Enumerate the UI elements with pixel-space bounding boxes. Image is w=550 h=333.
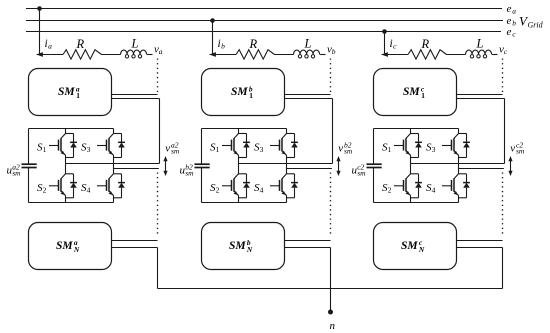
wire H-bridge bottom rail (29, 202, 114, 204)
label SM_N^b (229, 238, 253, 254)
wire (102, 54, 121, 56)
svg-text:3: 3 (260, 145, 264, 154)
resistor R (phase b) (236, 50, 275, 59)
svg-text:e: e (507, 26, 512, 38)
wire SM_1^b lower terminal (285, 99, 333, 164)
svg-text:R: R (421, 37, 430, 51)
svg-text:sm: sm (344, 147, 353, 156)
label e_c (507, 26, 517, 39)
label S_1 (37, 142, 47, 155)
wire dotted (omitted submodules) (157, 173, 159, 237)
svg-text:sm: sm (12, 169, 21, 178)
wire dotted v_b to SM_1 terminal (330, 59, 332, 93)
submodule block SM_N^b (202, 223, 285, 270)
label i_a (45, 38, 53, 51)
wire SM_1^b upper terminal (285, 94, 331, 96)
wire H-bridge bottom rail (202, 202, 287, 204)
submodule block SM_1^b (202, 69, 285, 116)
annotation arrow v_sm^b2 (336, 156, 340, 176)
submodule block SM_1^c (374, 69, 457, 116)
svg-text:SM: SM (229, 240, 246, 252)
svg-text:SM: SM (403, 86, 420, 98)
diode (antiparallel, S2) (246, 174, 248, 183)
svg-text:b: b (512, 18, 516, 27)
transistor S1 (IGBT, phase c) (394, 129, 422, 164)
svg-text:R: R (76, 37, 85, 51)
wire H-bridge left-leg midpoint output (411, 163, 505, 165)
wire H-bridge left-leg midpoint output (66, 163, 160, 165)
node v_b (327, 44, 336, 57)
svg-text:SM: SM (231, 86, 248, 98)
inductor L (phase a) (121, 50, 147, 54)
wire SM_N^c upper terminal (457, 240, 503, 242)
junction node on bus e_b (phase b) (210, 18, 215, 23)
label SM_N^a (56, 238, 80, 254)
svg-text:e: e (507, 3, 512, 15)
svg-text:b: b (221, 41, 225, 50)
svg-text:1: 1 (216, 145, 220, 154)
label S_1 (382, 142, 392, 155)
wire SM_N^c lower terminal (457, 248, 503, 289)
label R (phase c) (421, 37, 430, 51)
bus line e_c (26, 31, 501, 33)
svg-text:2: 2 (43, 185, 47, 194)
svg-text:4: 4 (432, 185, 436, 194)
transistor S1 (IGBT, phase a) (49, 129, 77, 164)
label SM_N^c (401, 238, 425, 254)
diode (antiparallel, S3) (121, 134, 123, 143)
label V_Grid (519, 14, 544, 30)
svg-text:1: 1 (421, 91, 425, 100)
wire SM_N^a upper terminal (112, 240, 158, 242)
label S_1 (210, 142, 220, 155)
bus line e_b (26, 20, 503, 22)
label R (phase a) (76, 37, 85, 51)
svg-text:b: b (332, 47, 336, 56)
transistor S3 (IGBT, phase c) (442, 129, 470, 169)
label S_2 (37, 182, 47, 195)
junction node on bus e_c (phase c) (382, 29, 387, 34)
wire H-bridge right-leg midpoint output (287, 168, 332, 170)
node v_c (499, 44, 508, 57)
svg-text:a: a (48, 41, 52, 50)
capacitor u_sm^c2 (submodule DC cap) (367, 129, 382, 203)
submodule block SM_N^a (29, 223, 112, 270)
svg-text:v: v (165, 143, 170, 155)
resistor R (phase c) (408, 50, 447, 59)
inductor L (phase c) (466, 50, 492, 54)
label S_4 (426, 182, 436, 195)
label i_c (390, 38, 398, 51)
diode (antiparallel, S4) (466, 174, 468, 183)
transistor S1 (IGBT, phase b) (222, 129, 250, 164)
svg-text:R: R (249, 37, 258, 51)
wire H-bridge left-leg midpoint output (239, 163, 333, 165)
diode (antiparallel, S1) (73, 134, 75, 143)
svg-text:2: 2 (388, 185, 392, 194)
svg-text:1: 1 (76, 91, 80, 100)
diode (antiparallel, S4) (121, 174, 123, 183)
transistor S2 (IGBT, phase a) (49, 164, 77, 203)
label u_sm^c2 (352, 162, 367, 177)
label v_sm^c2 (510, 140, 525, 155)
diode (antiparallel, S3) (466, 134, 468, 143)
label S_3 (426, 142, 436, 155)
diode (antiparallel, S2) (418, 174, 420, 183)
svg-text:4: 4 (260, 185, 264, 194)
label e_b (507, 15, 517, 28)
svg-text:L: L (304, 37, 312, 51)
svg-text:SM: SM (401, 240, 418, 252)
svg-text:n: n (330, 320, 336, 332)
inductor L (phase b) (294, 50, 320, 54)
label S_3 (81, 142, 91, 155)
transistor S2 (IGBT, phase b) (222, 164, 250, 203)
svg-text:v: v (510, 143, 515, 155)
wire (275, 54, 294, 56)
svg-text:Grid: Grid (528, 21, 544, 30)
label S_2 (382, 182, 392, 195)
label e_a (507, 3, 517, 16)
svg-text:L: L (476, 37, 484, 51)
diode (antiparallel, S1) (418, 134, 420, 143)
diode (antiparallel, S3) (294, 134, 296, 143)
svg-text:3: 3 (432, 145, 436, 154)
wire SM_1^c lower terminal (457, 99, 505, 164)
wire H-bridge right-leg midpoint output (114, 168, 159, 170)
svg-text:a: a (159, 47, 163, 56)
svg-text:2: 2 (216, 185, 220, 194)
label SM_1^b (231, 84, 253, 100)
wire dotted v_c to SM_1 terminal (502, 59, 504, 93)
wire H-bridge bottom rail (374, 202, 459, 204)
capacitor u_sm^a2 (submodule DC cap) (22, 129, 37, 203)
svg-text:N: N (246, 245, 253, 254)
transistor S3 (IGBT, phase b) (270, 129, 298, 169)
diode (antiparallel, S4) (294, 174, 296, 183)
current arrow i_a (36, 52, 63, 57)
label L (phase a) (131, 37, 139, 51)
svg-text:N: N (73, 245, 80, 254)
svg-text:v: v (338, 143, 343, 155)
resistor R (phase a) (63, 50, 102, 59)
label R (phase b) (249, 37, 258, 51)
svg-text:sm: sm (516, 147, 525, 156)
wire bus drop phase b (212, 21, 214, 55)
label S_2 (210, 182, 220, 195)
svg-text:sm: sm (185, 169, 194, 178)
label u_sm^a2 (7, 162, 22, 177)
label L (phase b) (304, 37, 312, 51)
label i_b (218, 38, 226, 51)
svg-text:1: 1 (43, 145, 47, 154)
wire H-bridge right-leg midpoint output (459, 168, 504, 170)
wire SM_N^a lower terminal (112, 248, 158, 289)
wire SM_N^b upper terminal (285, 240, 331, 242)
wire SM_N^b lower terminal (285, 248, 331, 312)
svg-text:4: 4 (87, 185, 91, 194)
label u_sm^b2 (180, 162, 195, 177)
wire H-bridge top rail (29, 128, 114, 130)
wire dotted (omitted submodules) (502, 173, 504, 237)
transistor S4 (IGBT, phase c) (442, 169, 470, 203)
diode (antiparallel, S2) (73, 174, 75, 183)
svg-text:1: 1 (388, 145, 392, 154)
svg-text:a: a (512, 6, 516, 15)
submodule block SM_N^c (374, 223, 457, 270)
current arrow i_b (209, 52, 236, 57)
svg-text:SM: SM (56, 240, 73, 252)
label S_3 (254, 142, 264, 155)
label v_sm^a2 (165, 140, 180, 155)
wire SM_1^a lower terminal (112, 99, 160, 164)
current arrow i_c (381, 52, 408, 57)
svg-text:sm: sm (171, 147, 180, 156)
svg-text:1: 1 (249, 91, 253, 100)
transistor S4 (IGBT, phase a) (97, 169, 125, 203)
label SM_1^a (58, 84, 80, 100)
wire SM_1^c upper terminal (457, 94, 503, 96)
annotation arrow v_sm^c2 (508, 156, 512, 176)
transistor S4 (IGBT, phase b) (270, 169, 298, 203)
label L (phase c) (476, 37, 484, 51)
node v_a (154, 44, 163, 57)
label S_4 (81, 182, 91, 195)
diode (antiparallel, S1) (246, 134, 248, 143)
bus line e_a (26, 8, 502, 10)
svg-text:L: L (131, 37, 139, 51)
wire (447, 54, 466, 56)
wire bottom rail (phase legs common) (158, 288, 503, 290)
annotation arrow v_sm^a2 (163, 156, 167, 176)
capacitor u_sm^b2 (submodule DC cap) (195, 129, 210, 203)
label S_4 (254, 182, 264, 195)
svg-text:sm: sm (357, 169, 366, 178)
svg-text:N: N (418, 245, 425, 254)
label v_sm^b2 (338, 140, 353, 155)
wire bus drop phase a (39, 9, 41, 55)
svg-text:3: 3 (87, 145, 91, 154)
wire dotted v_a to SM_1 terminal (157, 59, 159, 93)
wire dotted (omitted submodules) (330, 173, 332, 237)
junction node on bus e_a (phase a) (37, 6, 42, 11)
label SM_1^c (403, 84, 425, 100)
wire bus drop phase c (384, 32, 386, 55)
wire H-bridge top rail (202, 128, 287, 130)
svg-text:SM: SM (58, 86, 75, 98)
transistor S2 (IGBT, phase c) (394, 164, 422, 203)
wire SM_1^a upper terminal (112, 94, 158, 96)
node n (328, 310, 333, 315)
wire H-bridge top rail (374, 128, 459, 130)
transistor S3 (IGBT, phase a) (97, 129, 125, 169)
submodule block SM_1^a (29, 69, 112, 116)
